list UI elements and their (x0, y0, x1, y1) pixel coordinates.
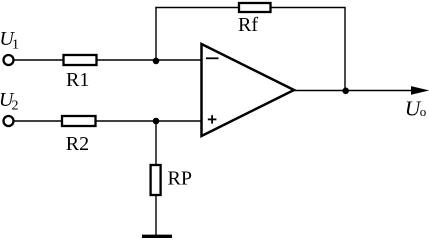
svg-text:Rf: Rf (238, 14, 258, 36)
op-amp minus sign (206, 57, 219, 59)
wire feedback right vertical (344, 8, 346, 91)
wire output (294, 90, 412, 92)
input terminal U1 (4, 55, 14, 65)
svg-text:R2: R2 (66, 133, 89, 155)
input terminal U2 (4, 116, 14, 126)
output arrow head (411, 86, 429, 95)
junction dot inverting node (153, 58, 160, 65)
wire U2 to non-inverting input (14, 120, 201, 122)
junction dot output node (342, 88, 349, 95)
resistor RP (151, 165, 161, 195)
svg-text:o: o (420, 104, 427, 119)
ground (142, 235, 172, 238)
svg-text:R1: R1 (66, 69, 89, 91)
wire U1 to inverting input (14, 59, 201, 61)
wire feedback top (155, 7, 345, 9)
svg-text:2: 2 (12, 98, 19, 113)
wire RP vertical (155, 121, 157, 235)
op-amp plus sign (208, 118, 217, 120)
resistor Rf (239, 3, 271, 12)
junction dot non-inverting node (153, 118, 160, 125)
resistor R2 (62, 116, 96, 126)
op-amp U (202, 44, 295, 136)
wire feedback left vertical (155, 8, 157, 61)
svg-text:RP: RP (168, 168, 192, 190)
svg-text:1: 1 (12, 38, 19, 53)
resistor R1 (64, 55, 97, 65)
